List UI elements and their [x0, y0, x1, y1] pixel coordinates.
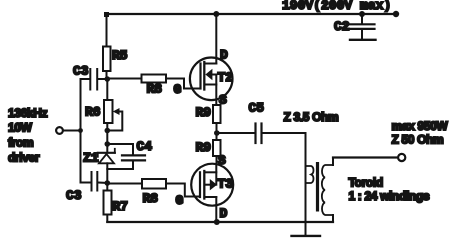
svg-text:R6: R6 — [85, 105, 101, 120]
node junction dot Z1/C4 — [105, 141, 111, 147]
node junction dot T3 drain on rail — [214, 219, 220, 225]
svg-text:T2: T2 — [218, 70, 234, 85]
svg-text:R8: R8 — [147, 82, 163, 97]
capacitor C3 (bottom) — [81, 172, 108, 191]
svg-text:D: D — [220, 206, 228, 221]
svg-text:C3: C3 — [66, 188, 82, 203]
resistor R8 (bottom) — [107, 179, 198, 197]
capacitor C5 — [217, 124, 306, 144]
transformer core — [316, 162, 319, 212]
wire top supply rail — [106, 13, 396, 15]
wire bottom ground rail — [107, 221, 333, 223]
resistor R7 — [104, 183, 112, 222]
svg-text:C5: C5 — [249, 101, 265, 116]
node junction dot R6 wiper — [105, 128, 111, 134]
svg-text:136kHz: 136kHz — [8, 106, 48, 120]
svg-text:R7: R7 — [113, 199, 129, 214]
svg-text:Z1: Z1 — [83, 151, 99, 166]
svg-text:R8: R8 — [143, 191, 159, 206]
svg-text:190V(200V max): 190V(200V max) — [282, 0, 391, 13]
resistor R8 (top) — [107, 75, 199, 89]
capacitor C2 — [350, 14, 375, 39]
zener diode Z1 — [98, 144, 115, 183]
transistor T3 — [191, 164, 233, 222]
resistor R9 (bottom) — [213, 133, 221, 164]
node junction dot C3bot/R8bot/R7 — [105, 180, 111, 186]
wire T2 drain from rail — [215, 14, 217, 64]
capacitor C4 — [107, 144, 145, 169]
label 136kHz 10W from driver — [8, 106, 48, 165]
node rail end dot — [393, 11, 399, 17]
resistor R6 trimmer — [104, 79, 122, 131]
svg-text:R9: R9 — [196, 105, 212, 120]
resistor R5 — [103, 14, 111, 79]
svg-text:10W: 10W — [8, 121, 33, 135]
svg-text:G: G — [176, 193, 184, 208]
resistor R9 (top) — [213, 105, 221, 133]
wire output — [333, 156, 397, 158]
wire input stub — [64, 130, 81, 132]
svg-text:driver: driver — [8, 151, 40, 165]
capacitor C3 (top) — [81, 69, 108, 90]
node junction dot R9/C5 — [214, 130, 220, 136]
transformer secondary winding — [322, 158, 333, 223]
svg-text:C3: C3 — [73, 64, 89, 79]
ground symbol main — [292, 222, 321, 236]
svg-text:Z 3.5 Ohm: Z 3.5 Ohm — [284, 110, 339, 124]
svg-text:max 950W: max 950W — [392, 119, 449, 133]
node T2 drain junction dot — [213, 11, 219, 17]
wire R6 to Z1 — [106, 131, 108, 145]
svg-text:Z 50 Ohm: Z 50 Ohm — [392, 133, 444, 147]
svg-text:from: from — [8, 136, 33, 150]
svg-text:C2: C2 — [334, 19, 350, 34]
node top-left corner blob — [104, 12, 109, 17]
node C2 junction dot — [359, 11, 365, 17]
transistor T2 — [190, 58, 233, 105]
ground bar for C2 — [350, 39, 376, 41]
svg-text:Toroid: Toroid — [349, 176, 383, 190]
terminal output circle — [398, 154, 405, 161]
node junction dot R5/C3/R8/R6 — [105, 76, 111, 82]
svg-text:C4: C4 — [137, 139, 153, 154]
terminal input circle — [56, 127, 63, 134]
node input junction dot — [78, 128, 83, 133]
svg-text:T3: T3 — [218, 177, 234, 192]
svg-text:1 : 24 windings: 1 : 24 windings — [349, 189, 430, 203]
transformer primary winding — [306, 133, 314, 222]
wire input vertical — [80, 79, 82, 183]
svg-text:R9: R9 — [196, 140, 212, 155]
svg-text:G: G — [174, 82, 182, 97]
svg-text:R5: R5 — [112, 48, 128, 63]
